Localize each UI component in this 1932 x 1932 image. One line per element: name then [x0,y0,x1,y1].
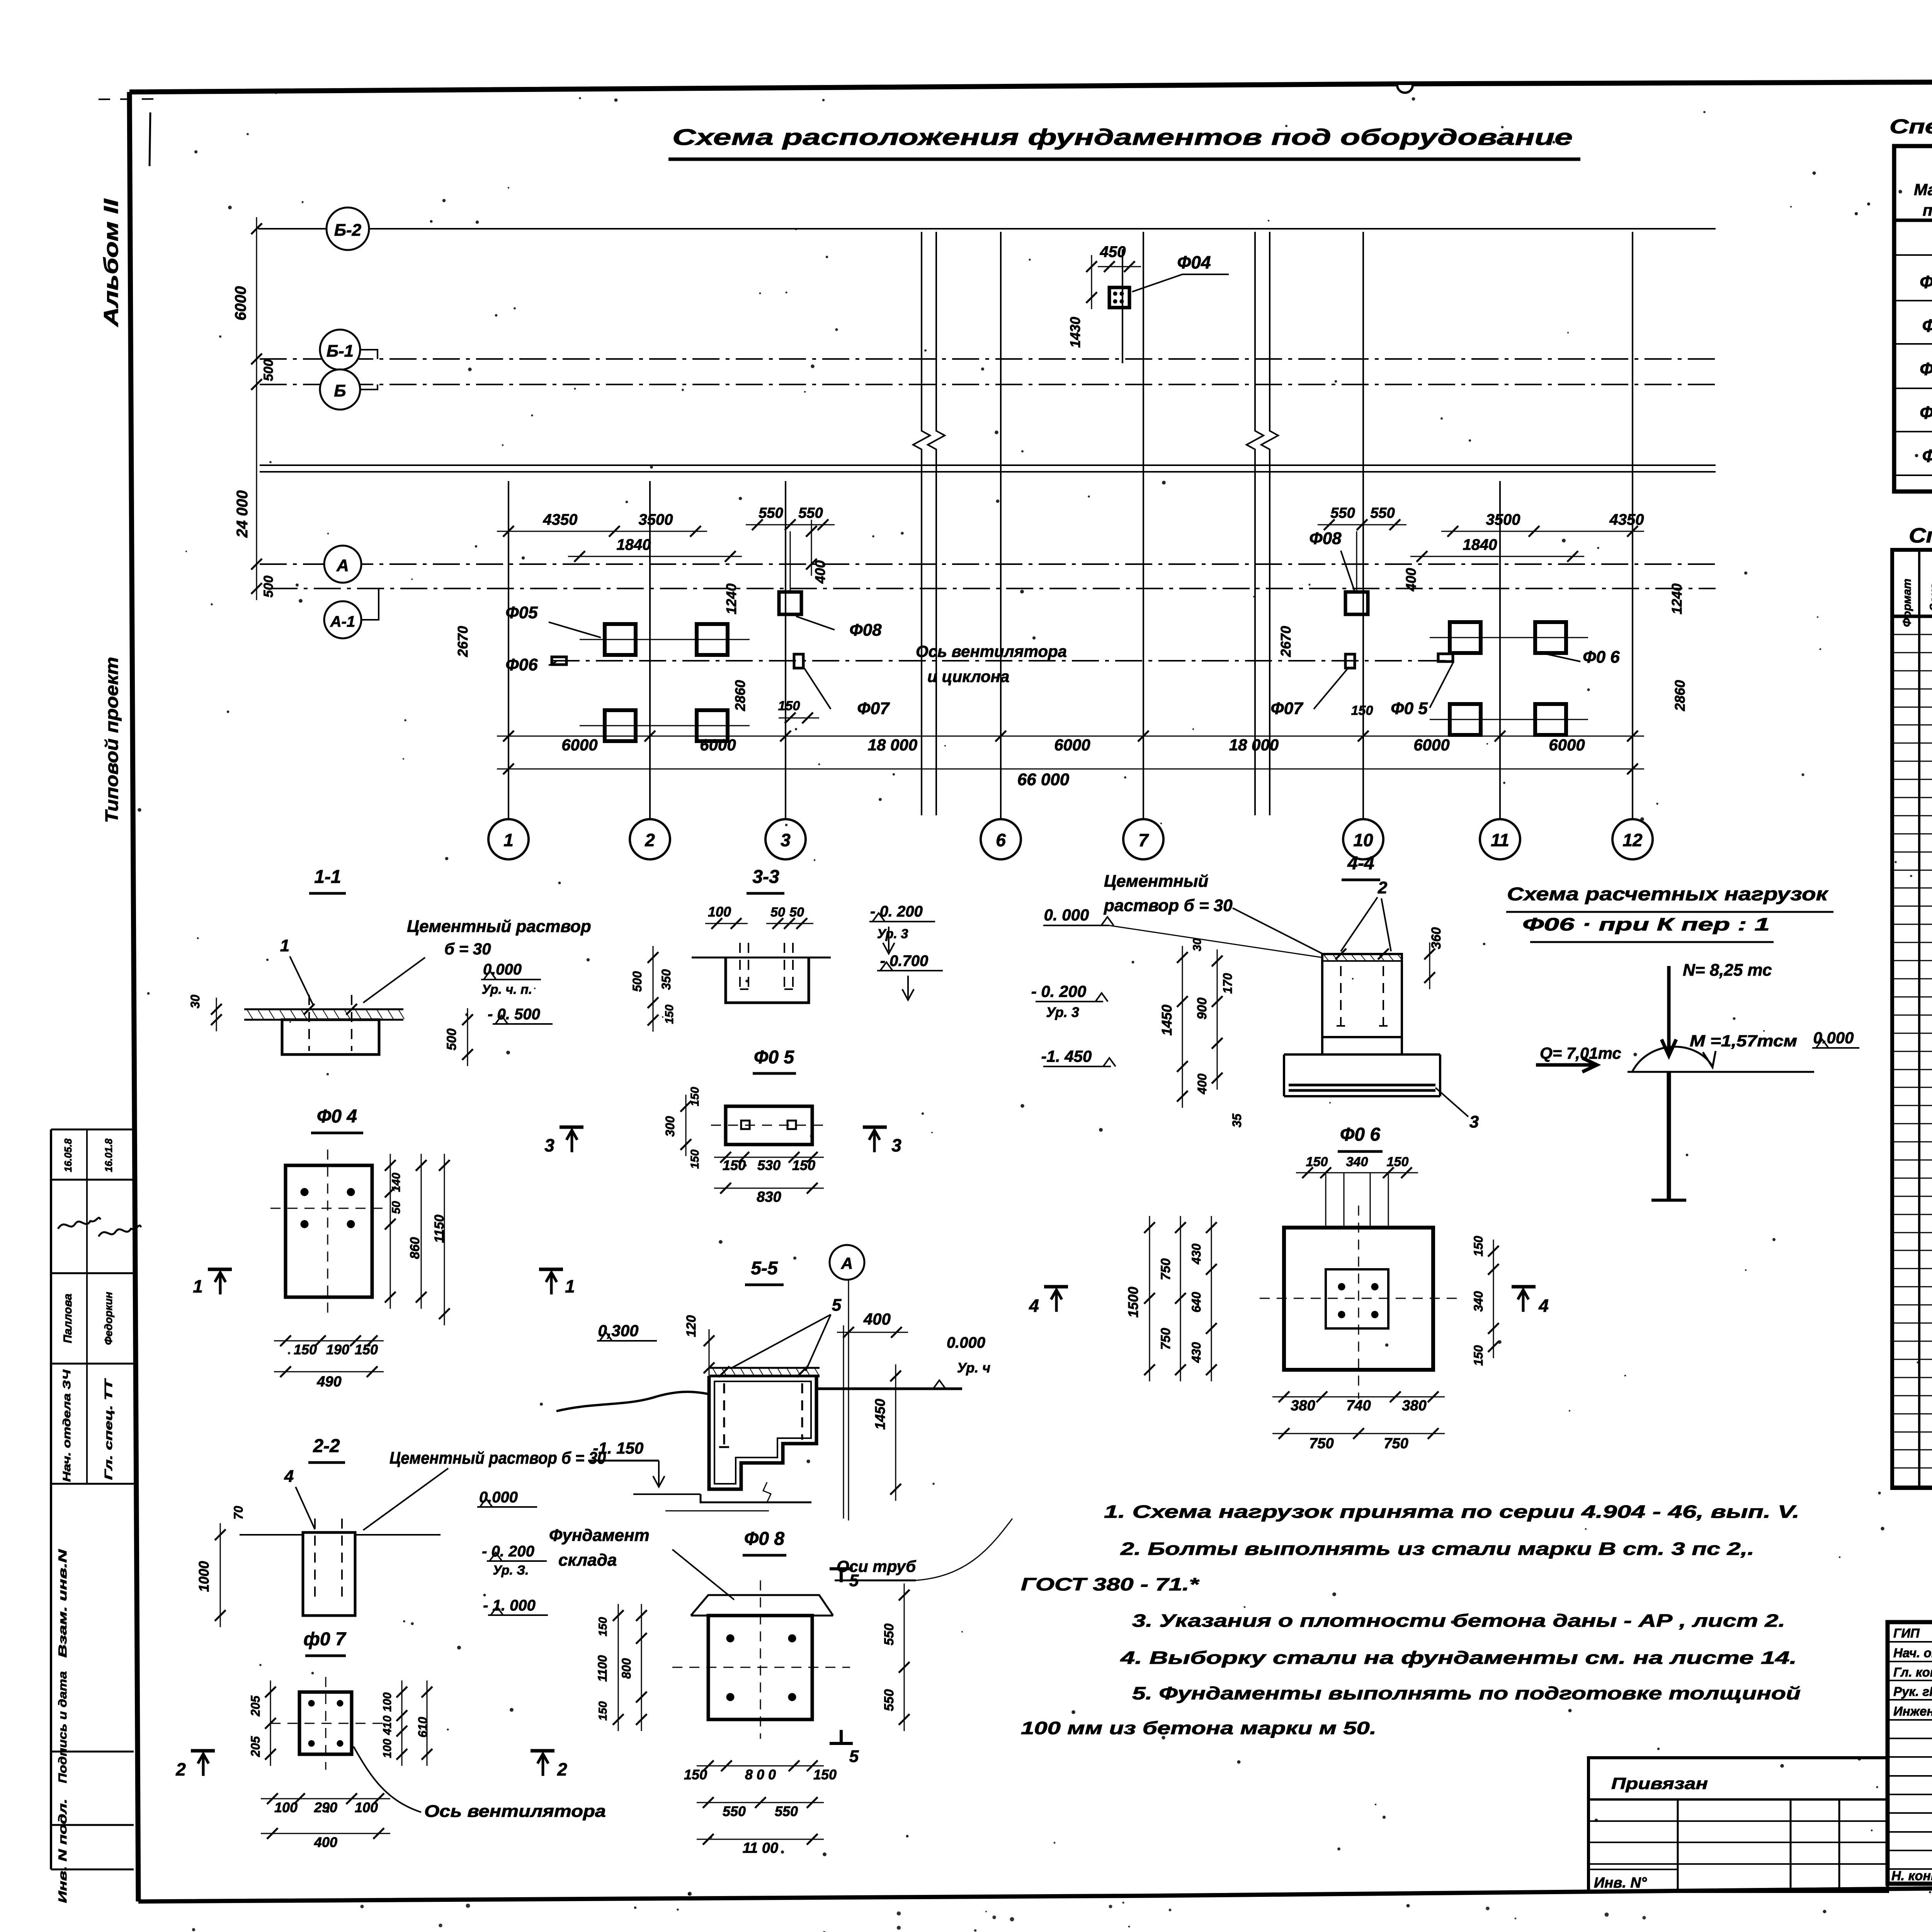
svg-text:830: 830 [757,1189,781,1205]
svg-text:Ур. ч: Ур. ч [957,1360,990,1376]
svg-text:1: 1 [565,1276,575,1296]
svg-text:поз.: поз. [1923,201,1932,219]
svg-text:Ф08: Ф08 [1922,446,1932,466]
svg-text:Ось вентилятора: Ось вентилятора [424,1802,606,1821]
svg-text:11 00: 11 00 [743,1840,778,1856]
svg-text:16.01.8: 16.01.8 [103,1138,114,1172]
svg-text:4-4: 4-4 [1347,853,1374,874]
svg-text:3. Указания о плотности бе: 3. Указания о плотности бетона даны - АР… [1132,1611,1785,1631]
svg-text:8 0 0: 8 0 0 [745,1767,776,1782]
svg-text:Нач. отдела ЗЧ: Нач. отдела ЗЧ [61,1369,73,1482]
svg-text:150: 150 [723,1157,746,1173]
svg-text:1500: 1500 [1125,1287,1141,1318]
svg-text:900: 900 [1195,998,1209,1020]
svg-text:Q= 7,01тс: Q= 7,01тс [1540,1044,1621,1063]
svg-text:150: 150 [1387,1155,1409,1169]
svg-text:150: 150 [355,1342,378,1357]
svg-text:1450: 1450 [872,1399,888,1430]
svg-text:170: 170 [1221,973,1235,994]
svg-text:Гл. констр: Гл. констр [1893,1665,1932,1679]
svg-text:Ф0 4: Ф0 4 [1920,272,1932,292]
svg-text:750: 750 [1309,1435,1333,1452]
svg-text:- 0.700: - 0.700 [880,952,929,969]
svg-text:М =1,57тсм: М =1,57тсм [1690,1032,1797,1050]
svg-text:500: 500 [261,359,276,381]
svg-text:Б-1: Б-1 [327,342,354,361]
svg-text:66 000: 66 000 [1017,770,1070,789]
svg-text:450: 450 [1100,243,1126,260]
svg-text:3: 3 [544,1135,554,1155]
svg-text:550: 550 [1330,505,1355,521]
svg-text:100: 100 [381,1692,394,1712]
svg-text:1. Схема нагрузок принята: 1. Схема нагрузок принята по серии 4.904… [1104,1502,1799,1522]
svg-text:Ось вентилятора: Ось вентилятора [916,642,1067,660]
svg-text:N= 8,25 тс: N= 8,25 тс [1683,961,1772,980]
svg-text:750: 750 [1384,1435,1408,1452]
svg-text:Инв. N подл.: Инв. N подл. [56,1799,69,1903]
svg-text:Инв. N°: Инв. N° [1594,1875,1647,1891]
svg-text:4: 4 [284,1467,294,1486]
svg-text:Зона: Зона [1928,583,1932,611]
svg-text:-1. 450: -1. 450 [1041,1047,1092,1065]
svg-text:290: 290 [314,1799,337,1815]
svg-text:1: 1 [193,1276,203,1296]
svg-text:1000: 1000 [196,1561,212,1592]
svg-text:Ур. 3: Ур. 3 [877,927,908,941]
svg-text:3500: 3500 [639,511,673,528]
svg-text:6000: 6000 [232,286,249,321]
svg-text:550: 550 [759,505,783,521]
svg-text:Ф0 5: Ф0 5 [754,1047,795,1068]
svg-text:550: 550 [882,1624,896,1646]
svg-text:ГОСТ 380 - 71.*: ГОСТ 380 - 71.* [1021,1574,1200,1594]
svg-text:100: 100 [381,1739,394,1758]
svg-text:А-1: А-1 [330,613,355,630]
svg-text:400: 400 [812,560,828,584]
svg-text:6000: 6000 [1549,736,1585,754]
svg-text:Ф08: Ф08 [849,621,882,639]
svg-text:Б-2: Б-2 [334,221,362,240]
svg-text:1240: 1240 [723,583,739,614]
svg-text:Паллова: Паллова [61,1294,74,1343]
svg-text:10: 10 [1353,830,1373,850]
svg-text:Нач. отд: Нач. отд [1893,1646,1932,1660]
svg-text:4350: 4350 [543,511,578,528]
svg-text:400: 400 [1403,568,1419,592]
svg-text:150: 150 [813,1767,837,1782]
svg-text:Инженер: Инженер [1893,1704,1932,1718]
svg-text:100: 100 [708,904,731,920]
svg-text:4. Выборку стали на фунда: 4. Выборку стали на фундаменты см. на ли… [1120,1648,1797,1668]
svg-text:Ф0 6: Ф0 6 [1583,648,1620,667]
svg-text:- 0. 500: - 0. 500 [488,1006,540,1023]
svg-text:0,300: 0,300 [598,1321,638,1340]
svg-text:Ф0 4: Ф0 4 [317,1106,357,1127]
svg-text:Схема расположения фундамент: Схема расположения фундаментов под обору… [672,125,1573,150]
svg-text:490: 490 [316,1374,341,1390]
svg-text:Ф0 8: Ф0 8 [744,1529,785,1549]
svg-text:3-3: 3-3 [752,867,779,887]
svg-text:1150: 1150 [432,1214,447,1243]
svg-text:550: 550 [1370,505,1395,521]
svg-text:150: 150 [684,1767,707,1782]
svg-text:Формат: Формат [1901,578,1913,627]
svg-text:-1. 150: -1. 150 [593,1439,644,1457]
svg-text:7: 7 [1138,830,1149,850]
svg-text:380: 380 [1402,1398,1426,1414]
svg-text:500: 500 [630,971,644,992]
svg-text:550: 550 [798,505,823,521]
svg-text:0. 000: 0. 000 [1044,906,1089,924]
svg-text:3500: 3500 [1486,511,1520,528]
svg-text:30: 30 [188,995,202,1009]
svg-text:100 мм из бетона марки: 100 мм из бетона марки м 50. [1021,1718,1376,1738]
svg-text:Ф0 5: Ф0 5 [1391,699,1428,718]
svg-text:ГИП: ГИП [1893,1626,1920,1640]
svg-text:1: 1 [503,830,514,850]
svg-text:340: 340 [1471,1291,1485,1312]
svg-text:400: 400 [314,1834,337,1850]
svg-text:550: 550 [882,1689,896,1711]
svg-text:6000: 6000 [561,736,597,754]
svg-text:- 0. 200: - 0. 200 [870,903,923,920]
svg-text:Рук. гР: Рук. гР [1893,1684,1932,1699]
svg-text:Ф08: Ф08 [1309,529,1342,548]
svg-text:Ур. ч. п.: Ур. ч. п. [482,982,532,997]
svg-text:Схема расчетных нагрузок: Схема расчетных нагрузок [1507,884,1829,905]
svg-text:610: 610 [416,1717,430,1738]
svg-text:16.05.8: 16.05.8 [62,1138,74,1172]
svg-text:4: 4 [1538,1296,1549,1316]
svg-text:550: 550 [775,1803,798,1819]
svg-text:Взам. инв.N: Взам. инв.N [56,1549,69,1658]
svg-text:430: 430 [1189,1243,1203,1265]
svg-text:35: 35 [1230,1113,1244,1128]
svg-text:Гл. спец. ТТ: Гл. спец. ТТ [102,1378,114,1480]
svg-text:Фундамент: Фундамент [549,1526,650,1545]
svg-text:410: 410 [381,1716,394,1735]
svg-text:2860: 2860 [1672,680,1688,711]
svg-text:3: 3 [891,1135,901,1155]
svg-text:6: 6 [996,830,1006,850]
svg-text:12: 12 [1622,830,1643,850]
svg-text:400: 400 [1195,1073,1209,1095]
svg-text:0.000: 0.000 [483,961,522,978]
svg-text:150: 150 [294,1342,317,1357]
svg-text:б = 30: б = 30 [444,940,491,958]
svg-text:400: 400 [863,1310,891,1328]
svg-text:740: 740 [1346,1398,1371,1414]
svg-text:Ф06: Ф06 [505,655,538,674]
svg-text:Ур. З.: Ур. З. [493,1563,529,1578]
svg-text:150: 150 [663,1005,676,1024]
svg-text:3: 3 [781,830,791,850]
svg-text:А: А [336,556,349,575]
svg-text:150: 150 [1471,1236,1485,1257]
svg-text:1840: 1840 [617,536,651,553]
svg-text:Ф04: Ф04 [1177,252,1211,272]
svg-text:ф0 7: ф0 7 [303,1629,347,1650]
svg-text:- 0. 200: - 0. 200 [1031,982,1086,1000]
svg-text:24 000: 24 000 [234,490,251,538]
svg-text:50: 50 [390,1201,403,1214]
svg-text:2: 2 [1378,878,1388,897]
svg-text:2: 2 [557,1759,567,1779]
svg-text:430: 430 [1189,1342,1203,1363]
svg-text:Ф06 · при К пер : 1: Ф06 · при К пер : 1 [1522,914,1770,934]
svg-text:120: 120 [684,1315,699,1337]
svg-text:Ф0 6: Ф0 6 [1340,1124,1381,1145]
svg-text:150: 150 [597,1701,609,1721]
svg-text:Типовой проект: Типовой проект [102,657,122,823]
svg-text:2860: 2860 [732,680,748,711]
svg-text:4350: 4350 [1609,511,1644,528]
svg-text:Спецификация фундаментов Ф0: Спецификация фундаментов Ф04 ; Ф05 ; Ф06… [1909,524,1932,547]
svg-text:Спецификация к схеме располо: Спецификация к схеме расположения фундам… [1889,116,1932,138]
svg-text:18 000: 18 000 [868,736,917,754]
svg-text:3: 3 [1469,1112,1479,1131]
svg-text:50: 50 [789,905,804,920]
svg-text:Ур. 3: Ур. 3 [1046,1004,1079,1020]
svg-text:Ф07: Ф07 [1270,699,1304,718]
svg-text:750: 750 [1158,1328,1173,1350]
svg-text:150: 150 [792,1157,815,1173]
svg-text:- 0. 200: - 0. 200 [482,1543,534,1560]
svg-text:Альбом II: Альбом II [100,198,122,328]
svg-text:2-2: 2-2 [313,1436,340,1456]
svg-text:1-1: 1-1 [314,867,341,887]
svg-text:340: 340 [1346,1155,1368,1169]
svg-text:500: 500 [261,576,276,598]
svg-text:2670: 2670 [1278,626,1294,657]
svg-text:Ф07: Ф07 [857,699,890,718]
svg-text:1240: 1240 [1669,583,1685,614]
svg-text:Ф0 6: Ф0 6 [1920,359,1932,379]
svg-text:550: 550 [723,1803,746,1819]
svg-text:Марка: Марка [1914,180,1932,199]
svg-text:Привязан: Привязан [1611,1774,1708,1793]
svg-text:6000: 6000 [700,736,736,754]
svg-text:Подпись и дата: Подпись и дата [56,1671,69,1783]
svg-text:Оси труб: Оси труб [837,1557,916,1575]
svg-text:5. Фундаменты выполнять п: 5. Фундаменты выполнять по подготовке то… [1132,1683,1801,1703]
svg-text:Н. контр.: Н. контр. [1891,1869,1932,1883]
svg-text:150: 150 [689,1087,701,1106]
svg-text:1840: 1840 [1463,536,1497,553]
svg-text:0.000: 0.000 [947,1334,985,1351]
svg-text:350: 350 [659,969,673,990]
svg-text:640: 640 [1189,1292,1203,1313]
svg-text:1: 1 [280,936,289,955]
svg-text:5-5: 5-5 [751,1258,778,1279]
svg-text:1430: 1430 [1067,317,1083,348]
svg-text:2670: 2670 [455,626,471,657]
svg-text:5: 5 [849,1571,859,1590]
svg-text:раствор б = 30: раствор б = 30 [1104,896,1233,915]
svg-text:205: 205 [248,1736,262,1757]
svg-text:2: 2 [175,1759,186,1779]
svg-text:150: 150 [1471,1345,1485,1366]
svg-text:18 000: 18 000 [1229,736,1279,754]
svg-text:150: 150 [1351,703,1373,718]
svg-text:190: 190 [326,1342,349,1357]
svg-text:6000: 6000 [1054,736,1090,754]
svg-text:А: А [841,1254,853,1272]
svg-text:6000: 6000 [1413,736,1449,754]
svg-text:70: 70 [231,1506,245,1520]
svg-text:Федоркин: Федоркин [102,1292,114,1345]
svg-text:Цементный раствор: Цементный раствор [407,917,591,936]
svg-text:205: 205 [248,1695,262,1717]
svg-text:0.000: 0.000 [479,1489,518,1506]
svg-text:530: 530 [757,1157,781,1173]
svg-text:5: 5 [849,1747,859,1766]
svg-text:100: 100 [355,1799,378,1815]
svg-text:150: 150 [778,699,800,713]
svg-text:склада: склада [558,1551,617,1570]
svg-text:2: 2 [645,830,655,850]
svg-text:- 1. 000: - 1. 000 [483,1597,536,1614]
svg-text:4: 4 [1029,1296,1039,1316]
svg-text:800: 800 [619,1658,633,1679]
svg-text:300: 300 [663,1116,677,1137]
svg-text:100: 100 [274,1799,298,1815]
svg-text:5: 5 [832,1296,842,1315]
svg-text:Цементный раствор б = 30: Цементный раствор б = 30 [389,1449,606,1468]
svg-text:860: 860 [408,1237,422,1259]
svg-text:380: 380 [1291,1398,1315,1414]
svg-text:и циклона: и циклона [927,667,1009,685]
svg-text:150: 150 [1306,1155,1328,1169]
svg-text:Б: Б [334,381,346,400]
svg-text:150: 150 [597,1617,609,1636]
svg-text:140: 140 [390,1173,403,1192]
svg-text:500: 500 [444,1029,459,1051]
svg-text:11: 11 [1491,830,1509,850]
svg-text:750: 750 [1158,1259,1173,1281]
svg-text:50: 50 [770,905,785,920]
svg-text:30: 30 [1191,938,1204,951]
svg-text:150: 150 [689,1150,701,1169]
svg-text:360: 360 [1429,927,1444,949]
svg-text:Цементный: Цементный [1104,872,1208,891]
svg-text:1450: 1450 [1159,1005,1175,1036]
svg-text:Ф05: Ф05 [1922,316,1932,336]
svg-text:2. Болты выполнять из стал: 2. Болты выполнять из стали марки В ст. … [1120,1539,1754,1559]
svg-text:Ф0 7: Ф0 7 [1920,403,1932,423]
svg-text:1100: 1100 [595,1655,609,1682]
svg-text:Ф05: Ф05 [505,603,538,622]
